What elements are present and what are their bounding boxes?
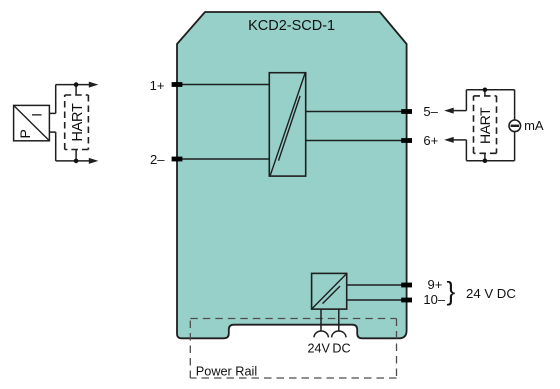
svg-text:24 V DC: 24 V DC (466, 286, 516, 301)
svg-text:mA: mA (524, 118, 544, 133)
svg-text:Power Rail: Power Rail (196, 365, 257, 379)
svg-text:}: } (447, 276, 456, 306)
svg-text:5–: 5– (423, 104, 438, 119)
svg-text:10–: 10– (423, 292, 445, 307)
svg-text:2–: 2– (150, 152, 165, 167)
svg-text:6+: 6+ (423, 133, 438, 148)
svg-text:9+: 9+ (428, 277, 443, 292)
svg-text:I: I (30, 113, 45, 117)
svg-text:P: P (17, 129, 33, 138)
svg-text:HART: HART (70, 103, 86, 141)
svg-text:24V DC: 24V DC (307, 342, 350, 356)
svg-text:HART: HART (477, 107, 493, 144)
svg-text:1+: 1+ (150, 78, 165, 93)
svg-text:KCD2-SCD-1: KCD2-SCD-1 (248, 18, 335, 34)
